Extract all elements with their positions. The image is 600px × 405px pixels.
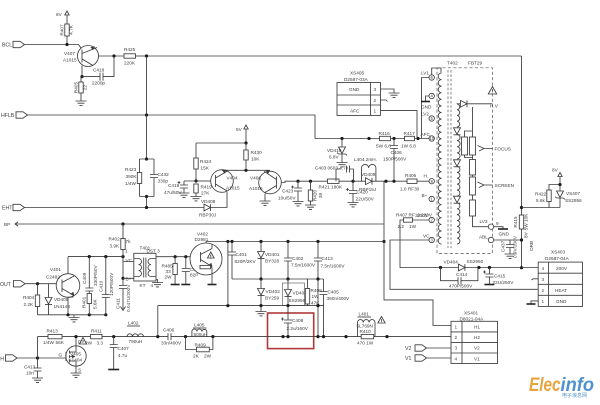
wire AFC row [315, 138, 429, 140]
svg-text:HFLB: HFLB [1, 113, 15, 119]
svg-text:6.8V: 6.8V [329, 155, 340, 160]
svg-text:R415: R415 [513, 216, 518, 228]
screen potentiometer block [470, 177, 476, 195]
diode EHT rectifier [461, 100, 468, 107]
wire link third bus to top bus [227, 242, 229, 306]
resistor R407 [60, 24, 74, 36]
svg-text:V406: V406 [250, 176, 261, 181]
svg-text:2W: 2W [204, 354, 212, 359]
svg-text:L405: L405 [194, 323, 205, 328]
connector V2 [405, 345, 427, 352]
svg-text:C411: C411 [116, 298, 121, 309]
svg-text:B+: B+ [422, 193, 428, 198]
svg-text:4: 4 [151, 283, 154, 288]
connector BP arrow [15, 222, 18, 226]
svg-text:8V: 8V [524, 231, 529, 238]
capacitor C414 [458, 277, 461, 284]
ground T401 pin4 [152, 283, 163, 287]
svg-text:H.V: H.V [490, 104, 499, 109]
svg-text:39: 39 [318, 193, 323, 199]
wire R423-C432 frame [140, 159, 155, 197]
svg-text:VD401: VD401 [265, 252, 280, 257]
svg-text:R410: R410 [360, 329, 372, 334]
junction HFLB/vertical [145, 113, 148, 116]
ground under R420 [305, 205, 316, 209]
svg-text:R485: R485 [162, 264, 174, 269]
svg-text:D8021-04A: D8021-04A [460, 316, 485, 321]
svg-text:1/4W: 1/4W [43, 340, 55, 345]
wire V405 source [75, 366, 77, 374]
wire VD408 to V404 emitter [211, 192, 228, 208]
wire R420 stubs [310, 181, 312, 205]
svg-text:4: 4 [455, 357, 458, 362]
resistor R415 [513, 213, 529, 231]
svg-text:H2: H2 [474, 335, 480, 340]
wire R430 stubs [245, 143, 247, 170]
svg-text:SCREEN: SCREEN [495, 183, 515, 188]
svg-text:XS401: XS401 [464, 311, 478, 316]
svg-text:L401: L401 [359, 312, 370, 317]
svg-text:2: 2 [455, 335, 458, 340]
svg-text:2W: 2W [85, 341, 93, 346]
diode VD402 [258, 289, 265, 296]
ground bar V402 [208, 284, 217, 286]
wire C412 stubs [185, 257, 187, 285]
ABL pin of T402 [488, 237, 493, 242]
connector XS405 D2587-03A [337, 83, 381, 116]
T401 core [144, 258, 146, 278]
junction right column [520, 206, 523, 269]
svg-text:LV1: LV1 [421, 71, 429, 76]
wire second bus [232, 278, 324, 280]
pin 8 of T402 [429, 179, 434, 184]
capacitor C418 [100, 73, 103, 81]
wire gate node up [37, 337, 39, 358]
svg-text:VD408: VD408 [201, 199, 216, 204]
svg-text:470 1W: 470 1W [357, 341, 374, 346]
svg-text:R408: R408 [311, 288, 323, 293]
pin 9 of T402 [488, 224, 493, 229]
zener VS407 [555, 191, 565, 199]
wire R406 to pin8 [417, 180, 429, 182]
capacitor C409 [85, 288, 93, 291]
resistor R407 RF10 [404, 218, 413, 222]
arrow end of C411 [121, 307, 126, 311]
power arrow 8V right [558, 173, 562, 185]
wire 200V bus [400, 267, 538, 269]
svg-text:C432: C432 [158, 172, 170, 177]
svg-text:1/4W: 1/4W [125, 181, 137, 186]
wire R408 stubs [307, 279, 309, 306]
svg-text:RBP30J: RBP30J [199, 213, 216, 218]
svg-text:R417: R417 [404, 131, 416, 136]
wire V402 collector to bus [205, 242, 207, 244]
transistor V406 A1015 [249, 170, 281, 194]
junction base node V401 [36, 282, 39, 285]
svg-text:5.6K: 5.6K [93, 298, 98, 309]
resistor R405 [74, 82, 88, 94]
transformer T402 dashed outline [437, 68, 493, 254]
svg-text:C403 0603 4.7n: C403 0603 4.7n [315, 166, 349, 171]
ground bracket XS403 pin1 [527, 303, 536, 305]
wire VD402 column [260, 279, 262, 312]
wire V401 collector up [67, 257, 69, 274]
capacitor C419 [178, 181, 189, 188]
junction emitter rail [66, 313, 107, 316]
junction H line nodes [384, 180, 395, 183]
wire R404 stubs [37, 284, 39, 315]
wire V405 drain [75, 337, 77, 347]
svg-text:SS2956: SS2956 [565, 198, 582, 203]
svg-text:4.7K: 4.7K [69, 24, 74, 35]
svg-text:7.5n/1600V: 7.5n/1600V [291, 263, 316, 268]
connector HFLB [1, 112, 28, 119]
svg-text:SS2956: SS2956 [289, 298, 306, 303]
svg-text:VC: VC [126, 258, 133, 263]
focus potentiometer block [462, 137, 476, 155]
connector BCL [2, 41, 25, 48]
ground under VD410 [337, 163, 348, 167]
screen wiper arrow [478, 182, 493, 188]
svg-text:3: 3 [542, 277, 545, 282]
ground under VD402 [256, 312, 267, 316]
svg-text:VD409: VD409 [361, 172, 376, 177]
wire C406 column [393, 139, 395, 182]
svg-text:S: S [78, 368, 81, 373]
svg-text:47u/50V: 47u/50V [164, 190, 182, 195]
diode VD401 [258, 252, 265, 259]
svg-text:A1015: A1015 [226, 186, 240, 191]
svg-text:5.6k: 5.6k [536, 198, 546, 203]
wire 8V rail [522, 185, 561, 208]
svg-text:V405: V405 [70, 352, 81, 357]
wire base node to C419 [184, 181, 196, 185]
Elecinfo logo [529, 375, 594, 399]
svg-text:7k: 7k [126, 239, 132, 244]
svg-text:XS405: XS405 [350, 71, 364, 76]
wire R402 stubs [122, 224, 124, 257]
wire C403 branch [336, 169, 354, 181]
capacitor C437 [506, 245, 514, 248]
svg-text:15K: 15K [201, 166, 210, 171]
svg-text:2W: 2W [165, 275, 173, 280]
junction bottom bus [74, 335, 388, 338]
svg-text:2.2u/160V: 2.2u/160V [287, 326, 309, 331]
pin 5 of T402 [429, 116, 434, 121]
transistor V404 A1015 [211, 170, 240, 193]
svg-text:R409: R409 [195, 342, 207, 347]
svg-text:C406: C406 [163, 328, 175, 333]
wire C423 to ground [297, 191, 299, 202]
svg-text:5V: 5V [236, 127, 243, 132]
svg-text:5W 6.8: 5W 6.8 [376, 144, 391, 149]
diode VD403 boxed [283, 283, 308, 306]
T401 primary winding [134, 259, 142, 277]
ground bar C412 [181, 284, 190, 286]
svg-text:220K: 220K [124, 61, 136, 66]
wire third bus [158, 305, 324, 307]
svg-text:R407: R407 [60, 24, 65, 36]
junction EHT/vertical [145, 206, 148, 209]
svg-text:AFC: AFC [350, 109, 360, 114]
wire gate row [17, 357, 66, 359]
wire emitter chord [222, 169, 270, 171]
resistor R408 [305, 289, 309, 305]
svg-text:C413: C413 [24, 365, 36, 370]
svg-text:R422: R422 [535, 192, 547, 197]
svg-text:8V: 8V [552, 168, 559, 173]
resistor R485 [173, 264, 177, 275]
wire V406 collector out [281, 181, 325, 182]
svg-text:4.7u: 4.7u [118, 353, 128, 358]
power arrow 5V [244, 125, 248, 143]
svg-text:R430: R430 [251, 150, 263, 155]
svg-text:120P/500V: 120P/500V [109, 272, 114, 296]
svg-text:C406: C406 [391, 150, 403, 155]
junction 8V top [558, 183, 561, 186]
wire divider lower links [473, 195, 489, 227]
svg-text:R424: R424 [200, 159, 212, 164]
svg-text:HEAT: HEAT [555, 288, 567, 293]
resistor R411 [91, 334, 103, 338]
svg-text:C415: C415 [494, 274, 506, 279]
svg-text:BY259: BY259 [265, 296, 279, 301]
resistor R409 parallel [186, 337, 213, 359]
wire R424 top [195, 143, 197, 158]
pin 3 of T402 [429, 237, 434, 242]
wire divider mid links [465, 155, 473, 177]
svg-text:V407: V407 [64, 51, 75, 56]
svg-text:150P/500V: 150P/500V [383, 157, 407, 162]
ground under V405 [71, 373, 82, 377]
wire XS403 pin1 gnd [531, 301, 538, 304]
svg-text:R425: R425 [124, 47, 136, 52]
wire R407 down to 200V bus [400, 220, 404, 268]
svg-text:BY328: BY328 [265, 259, 279, 264]
ground under R419 [191, 197, 202, 201]
svg-text:LV2: LV2 [421, 112, 429, 117]
wire top line to right column [147, 55, 522, 57]
wire VD403 stubs [287, 279, 289, 306]
svg-text:200V: 200V [421, 213, 433, 218]
label L401 underline [358, 316, 372, 318]
svg-text:500uH: 500uH [194, 332, 208, 337]
wire secondary top tap [457, 103, 461, 105]
wire HFLB row [28, 115, 316, 139]
junction third bus [226, 304, 319, 307]
wire C437 to ground [509, 248, 511, 255]
diode in secondary 1 [454, 128, 461, 135]
connector H drive [0, 355, 17, 363]
svg-text:1: 1 [542, 299, 545, 304]
mosfet V405 K1404 [66, 346, 86, 366]
divider resistor block 2 [470, 160, 476, 176]
wire C419 to ground [183, 188, 185, 193]
wire C420 stub [352, 181, 354, 190]
ground emitter rail [69, 318, 80, 322]
T401 secondary winding [148, 259, 156, 277]
wire VC to HEAT [390, 240, 538, 289]
wire H line mid [325, 180, 366, 182]
junction 200V bus [439, 266, 491, 269]
resistor R417 [405, 136, 415, 140]
capacitor C423 [291, 186, 302, 192]
svg-text:C414: C414 [456, 272, 468, 277]
svg-text:VD402: VD402 [266, 289, 281, 294]
junction B+ node [121, 277, 124, 280]
T402 core [448, 70, 451, 248]
svg-text:ORB: ORB [529, 241, 534, 251]
svg-text:R419: R419 [201, 185, 213, 190]
svg-text:C402: C402 [292, 256, 304, 261]
svg-text:C410: C410 [99, 280, 104, 292]
svg-text:G: G [59, 353, 63, 358]
wire EHT row [25, 207, 205, 209]
svg-text:82P: 82P [190, 273, 198, 278]
resistor R416 [380, 136, 391, 140]
svg-text:KT: KT [140, 283, 146, 288]
svg-text:2K: 2K [193, 354, 200, 359]
wire C420 to ground [352, 194, 354, 203]
svg-text:R402: R402 [109, 237, 121, 242]
svg-text:C423: C423 [282, 189, 294, 194]
svg-text:FBT29: FBT29 [468, 61, 482, 66]
svg-text:820P/2KV: 820P/2KV [235, 259, 257, 264]
warning triangle L401 [378, 317, 385, 324]
svg-text:H.: H. [424, 174, 429, 179]
svg-text:10: 10 [429, 136, 434, 141]
connector V1 [405, 355, 427, 362]
svg-text:R407 RF10: R407 RF10 [396, 213, 420, 218]
capacitor C405 [320, 292, 328, 295]
svg-text:C409: C409 [82, 272, 87, 284]
junction C420 node [351, 180, 354, 183]
label L402 underline [127, 325, 140, 327]
warning triangle HV [488, 87, 496, 95]
wire V402 base row [156, 256, 200, 258]
wire C410 column [105, 257, 107, 315]
svg-text:7.5n/1600V: 7.5n/1600V [321, 264, 346, 269]
ground under R405 [76, 101, 87, 105]
capacitor C403 [347, 166, 350, 173]
ground bar R485 [171, 284, 180, 286]
wire 5V rail left [196, 142, 246, 144]
svg-text:1: 1 [455, 325, 458, 330]
wire C405 column [323, 279, 325, 337]
wire V401 emitter down [68, 295, 73, 315]
capacitor C420 [346, 188, 357, 194]
ground under C419 [179, 193, 190, 197]
svg-text:BCL: BCL [2, 43, 12, 49]
svg-text:R406: R406 [405, 173, 417, 178]
svg-text:V1: V1 [405, 356, 411, 362]
chassis bar pin9 [498, 228, 508, 230]
resistor R421 [328, 179, 340, 183]
wire XS405 pin1 AFC [381, 111, 418, 139]
svg-text:VD405: VD405 [54, 297, 69, 302]
T402 secondary winding [457, 104, 460, 127]
junction second bus [259, 277, 319, 280]
resistor R401 [87, 294, 91, 304]
svg-text:470P/500V: 470P/500V [449, 283, 473, 288]
svg-text:GND: GND [421, 105, 432, 110]
junction gate node [36, 356, 39, 359]
svg-text:1W: 1W [312, 294, 320, 299]
highlight box around C408 [268, 313, 314, 349]
svg-text:L402: L402 [128, 321, 139, 326]
junction AFC nodes [340, 137, 419, 140]
resistor R410 [361, 334, 374, 338]
capacitor C408 [281, 318, 292, 324]
wire C402 column [287, 242, 289, 280]
svg-text:GND: GND [556, 299, 567, 304]
svg-text:B+: B+ [126, 277, 132, 282]
ground under C437 [505, 254, 516, 258]
resistor R423 [137, 173, 141, 184]
wire C401 column [231, 242, 233, 280]
ground under C420 [348, 203, 359, 207]
resistor R422 [547, 190, 551, 202]
junction BP/R402 [121, 222, 124, 225]
svg-text:200V: 200V [556, 266, 568, 271]
wire C407 stub [113, 337, 115, 369]
capacitor C410 [102, 295, 110, 298]
svg-text:5W 10K: 5W 10K [524, 213, 529, 231]
svg-text:R411: R411 [91, 329, 102, 334]
chassis bar pin4 [421, 101, 430, 103]
wire BCL row [25, 45, 83, 50]
diode in secondary 2 [454, 160, 461, 167]
svg-text:V404: V404 [227, 176, 238, 181]
junction C423/R420 [296, 180, 312, 183]
resistor R420 [308, 190, 323, 202]
svg-text:2200p: 2200p [92, 81, 105, 86]
wire C413b column [37, 358, 39, 378]
svg-text:5L769N: 5L769N [357, 324, 373, 329]
svg-text:1W: 1W [409, 224, 417, 229]
wire C418 to collector line [103, 56, 114, 77]
label L405 underline [193, 327, 207, 329]
pin 2 of T402 [429, 217, 434, 222]
connector XS401 D8021-04A [451, 321, 498, 363]
wire VD405 stubs [48, 284, 50, 315]
svg-text:0.047U/200V: 0.047U/200V [126, 284, 131, 312]
svg-text:GND: GND [349, 87, 360, 92]
svg-text:K1404: K1404 [69, 358, 83, 363]
svg-text:V1: V1 [474, 357, 480, 362]
svg-text:VC: VC [423, 234, 430, 239]
svg-text:D2587-04A: D2587-04A [545, 256, 570, 261]
ground bar C415 [484, 284, 494, 286]
svg-text:H: H [0, 357, 4, 363]
svg-text:390K: 390K [126, 174, 138, 179]
svg-text:EHT: EHT [2, 206, 13, 212]
inductor L405 [192, 329, 207, 337]
svg-text:10K: 10K [251, 157, 260, 162]
pin 6 of T402 [429, 75, 434, 80]
svg-text:10u/50V: 10u/50V [278, 196, 296, 201]
wire top bus [206, 241, 384, 243]
resistor R406 [407, 179, 417, 183]
wire R424 to base node [195, 169, 197, 181]
wire BP row [15, 223, 384, 225]
svg-text:33: 33 [166, 269, 172, 274]
wire H1 route [384, 181, 451, 325]
junction top bus [226, 240, 385, 243]
svg-text:33n/400V: 33n/400V [161, 341, 182, 346]
svg-text:V402: V402 [197, 232, 208, 237]
svg-text:22: 22 [83, 85, 88, 91]
